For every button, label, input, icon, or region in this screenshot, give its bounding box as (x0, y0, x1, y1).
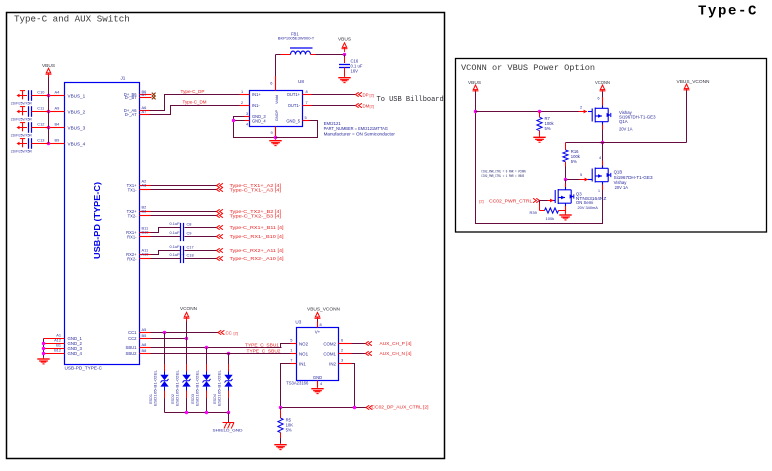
svg-text:20V 340mA: 20V 340mA (578, 205, 599, 210)
svg-text:OUT1-: OUT1- (288, 103, 301, 108)
svg-text:A8: A8 (142, 342, 147, 347)
svg-text:J1: J1 (121, 76, 126, 81)
svg-text:0.1uF: 0.1uF (170, 244, 181, 249)
svg-text:CC: CC (226, 330, 232, 335)
svg-text:TYPE_C_SBU1: TYPE_C_SBU1 (245, 343, 280, 348)
svg-text:0.1uF: 0.1uF (170, 230, 181, 235)
svg-text:IN1-: IN1- (252, 103, 260, 108)
svg-text:RX2-: RX2- (127, 256, 137, 261)
svg-text:C12: C12 (37, 122, 44, 127)
svg-text:USB-PD (TYPE-C): USB-PD (TYPE-C) (93, 182, 102, 259)
svg-text:To USB Billboard: To USB Billboard (377, 96, 444, 104)
svg-text:SBU2: SBU2 (126, 351, 138, 356)
svg-text:A9: A9 (55, 106, 60, 111)
svg-text:TX1-: TX1- (128, 187, 138, 192)
svg-text:22nF/25V/X5R: 22nF/25V/X5R (11, 133, 33, 137)
svg-text:AUX_CH_P [4]: AUX_CH_P [4] (380, 341, 412, 346)
svg-text:A10: A10 (142, 252, 150, 257)
svg-text:7: 7 (306, 100, 308, 105)
svg-text:OUT1+: OUT1+ (287, 92, 301, 97)
svg-text:B12: B12 (54, 348, 61, 353)
svg-text:BKP1005E3W000-T: BKP1005E3W000-T (278, 36, 315, 41)
svg-text:V+: V+ (315, 330, 321, 335)
svg-text:A4: A4 (55, 90, 61, 95)
svg-text:2: 2 (580, 105, 582, 110)
svg-text:VCONN or VBUS Power Option: VCONN or VBUS Power Option (461, 63, 595, 73)
svg-text:GND_5: GND_5 (286, 118, 300, 123)
svg-text:C18: C18 (187, 252, 194, 257)
svg-text:COM1: COM1 (323, 351, 336, 356)
svg-text:Type-C_RX1-_B10 [4]: Type-C_RX1-_B10 [4] (230, 234, 284, 239)
svg-text:CC1: CC1 (128, 330, 137, 335)
svg-text:Type-C_DP: Type-C_DP (181, 89, 205, 94)
svg-text:ESD105-B1-02EL: ESD105-B1-02EL (196, 370, 200, 406)
svg-text:[2]: [2] (370, 93, 374, 98)
svg-text:3: 3 (246, 111, 248, 116)
svg-text:5%: 5% (571, 159, 577, 164)
svg-text:6: 6 (270, 81, 272, 86)
svg-text:D-_B7: D-_B7 (125, 95, 137, 100)
svg-text:Type-C_RX1+_B11 [4]: Type-C_RX1+_B11 [4] (230, 225, 284, 230)
svg-text:0.1uF: 0.1uF (170, 221, 181, 226)
svg-text:NO2: NO2 (299, 341, 309, 346)
svg-text:5: 5 (305, 115, 307, 120)
svg-text:VBUS_VCONN: VBUS_VCONN (677, 79, 710, 84)
svg-text:22nF/25V/X5R: 22nF/25V/X5R (11, 149, 33, 153)
svg-text:1: 1 (598, 189, 600, 193)
svg-text:100k: 100k (546, 216, 555, 221)
svg-text:1: 1 (290, 348, 292, 353)
svg-text:B9: B9 (55, 138, 60, 143)
svg-text:3: 3 (341, 358, 343, 363)
svg-text:VCONN: VCONN (180, 306, 197, 311)
svg-text:5%: 5% (286, 428, 292, 433)
svg-text:8: 8 (320, 322, 322, 327)
svg-text:Type-C_RX2+_A11 [4]: Type-C_RX2+_A11 [4] (230, 248, 284, 253)
svg-text:VBUS: VBUS (468, 80, 481, 85)
svg-text:AUX_CH_N [4]: AUX_CH_N [4] (380, 351, 412, 356)
svg-text:20V 1A: 20V 1A (619, 126, 633, 131)
svg-text:20V 1A: 20V 1A (615, 185, 629, 190)
svg-text:ESD105-B1-02EL: ESD105-B1-02EL (154, 370, 158, 406)
svg-text:A5: A5 (142, 327, 147, 332)
svg-text:R39: R39 (530, 210, 538, 215)
svg-text:VBUS_2: VBUS_2 (68, 109, 86, 114)
svg-text:A7: A7 (142, 109, 147, 114)
svg-text:C9: C9 (187, 230, 192, 235)
svg-text:B5: B5 (142, 333, 147, 338)
svg-text:Manufacturer = ON Semiconducto: Manufacturer = ON Semiconductor (324, 131, 396, 136)
svg-text:CC02_PWR_CTRL: CC02_PWR_CTRL (489, 199, 533, 204)
svg-text:IN1: IN1 (299, 361, 306, 366)
svg-text:0.1uF: 0.1uF (170, 252, 181, 257)
svg-text:TX2-: TX2- (128, 213, 138, 218)
svg-text:Type-C_DM: Type-C_DM (183, 100, 207, 105)
svg-text:VBUS_4: VBUS_4 (68, 141, 86, 146)
svg-text:IN2: IN2 (329, 361, 336, 366)
svg-text:2: 2 (241, 100, 243, 105)
svg-text:5%: 5% (545, 126, 551, 131)
svg-text:ESD4: ESD4 (213, 394, 217, 404)
svg-text:GNDP: GNDP (274, 109, 279, 121)
svg-text:ESD2: ESD2 (171, 394, 175, 404)
svg-text:6: 6 (341, 338, 343, 343)
svg-text:[2]: [2] (234, 330, 238, 335)
svg-text:VBUS: VBUS (42, 63, 55, 68)
svg-text:GND_4: GND_4 (252, 118, 266, 123)
svg-text:IN1+: IN1+ (252, 92, 261, 97)
svg-text:SBU1: SBU1 (126, 345, 138, 350)
svg-text:VBUS_1: VBUS_1 (68, 93, 86, 98)
svg-text:16V: 16V (351, 68, 359, 73)
svg-text:GND: GND (313, 375, 322, 380)
svg-text:C13: C13 (37, 138, 44, 143)
svg-text:DP: DP (363, 93, 369, 98)
svg-text:TS3A23166: TS3A23166 (286, 380, 309, 385)
svg-text:[2]: [2] (370, 104, 374, 109)
svg-text:[2]: [2] (479, 199, 483, 204)
svg-text:VCONN: VCONN (595, 80, 610, 85)
svg-text:5: 5 (580, 172, 582, 177)
svg-text:22nF/25V/X5R: 22nF/25V/X5R (11, 101, 33, 105)
svg-text:VBUS: VBUS (338, 37, 351, 42)
svg-text:GND_4: GND_4 (68, 351, 83, 356)
svg-text:A3: A3 (142, 183, 147, 188)
svg-text:2: 2 (341, 348, 343, 353)
svg-text:CC02_PWR_CTRL = 1 PWR = VBUS: CC02_PWR_CTRL = 1 PWR = VBUS (481, 175, 524, 179)
svg-text:Type-C_TX1-_A3 [4]: Type-C_TX1-_A3 [4] (230, 187, 282, 192)
svg-text:ESD105-B1-02EL: ESD105-B1-02EL (218, 370, 222, 406)
svg-text:Type-C_TX2-_B3 [4]: Type-C_TX2-_B3 [4] (230, 213, 282, 218)
svg-text:SHIELD_GND: SHIELD_GND (213, 427, 243, 432)
svg-text:B4: B4 (55, 122, 61, 127)
svg-text:ESD105-B1-02EL: ESD105-B1-02EL (176, 370, 180, 406)
svg-text:D-_A7: D-_A7 (125, 112, 137, 117)
svg-text:RX1-: RX1- (127, 234, 137, 239)
svg-text:Type-C_RX2-_A10 [4]: Type-C_RX2-_A10 [4] (230, 256, 284, 261)
svg-text:U8: U8 (298, 79, 304, 84)
svg-text:Q1A: Q1A (619, 119, 628, 124)
svg-text:PART_NUMBER = EMI2121MTTAG: PART_NUMBER = EMI2121MTTAG (324, 126, 389, 131)
svg-text:8: 8 (306, 89, 308, 94)
svg-text:ESD3: ESD3 (191, 394, 195, 404)
svg-text:VBUS_3: VBUS_3 (68, 125, 86, 130)
svg-text:C10: C10 (37, 90, 45, 95)
svg-text:B3: B3 (142, 209, 147, 214)
svg-text:1: 1 (241, 89, 243, 94)
svg-text:Vddd: Vddd (274, 95, 279, 104)
svg-text:B10: B10 (142, 230, 150, 235)
svg-text:ESD1: ESD1 (149, 394, 153, 404)
svg-text:TYPE_C_SBU2: TYPE_C_SBU2 (247, 349, 282, 354)
svg-text:5: 5 (290, 338, 292, 343)
svg-text:U3: U3 (295, 320, 301, 325)
svg-text:C11: C11 (37, 106, 44, 111)
svg-text:USB-PD_TYPE-C: USB-PD_TYPE-C (65, 365, 103, 370)
svg-text:6: 6 (598, 97, 600, 101)
svg-text:CC2: CC2 (128, 336, 137, 341)
svg-text:VBUS_VCONN: VBUS_VCONN (307, 306, 340, 311)
svg-text:CC02_DP_AUX_CTRL [2]: CC02_DP_AUX_CTRL [2] (372, 404, 429, 409)
svg-text:B8: B8 (142, 348, 147, 353)
svg-text:7: 7 (290, 358, 292, 363)
svg-text:Type-C and AUX Switch: Type-C and AUX Switch (14, 14, 130, 25)
svg-text:22nF/25V/X5R: 22nF/25V/X5R (11, 117, 33, 121)
svg-text:C8: C8 (187, 221, 192, 226)
svg-text:Type-C: Type-C (698, 4, 758, 20)
svg-text:NO1: NO1 (299, 351, 309, 356)
svg-text:9: 9 (271, 130, 273, 135)
svg-text:B7: B7 (142, 92, 147, 97)
svg-text:COM2: COM2 (323, 341, 336, 346)
svg-text:C17: C17 (187, 244, 194, 249)
